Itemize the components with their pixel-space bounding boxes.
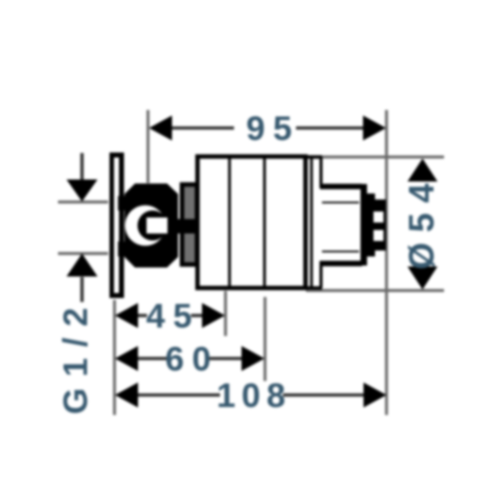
svg-text:108: 108 (217, 377, 292, 415)
svg-text:95: 95 (246, 110, 300, 148)
svg-text:G1/2: G1/2 (57, 297, 95, 415)
svg-text:45: 45 (146, 298, 200, 336)
svg-text:Ø54: Ø54 (403, 173, 442, 269)
svg-text:60: 60 (165, 341, 219, 379)
